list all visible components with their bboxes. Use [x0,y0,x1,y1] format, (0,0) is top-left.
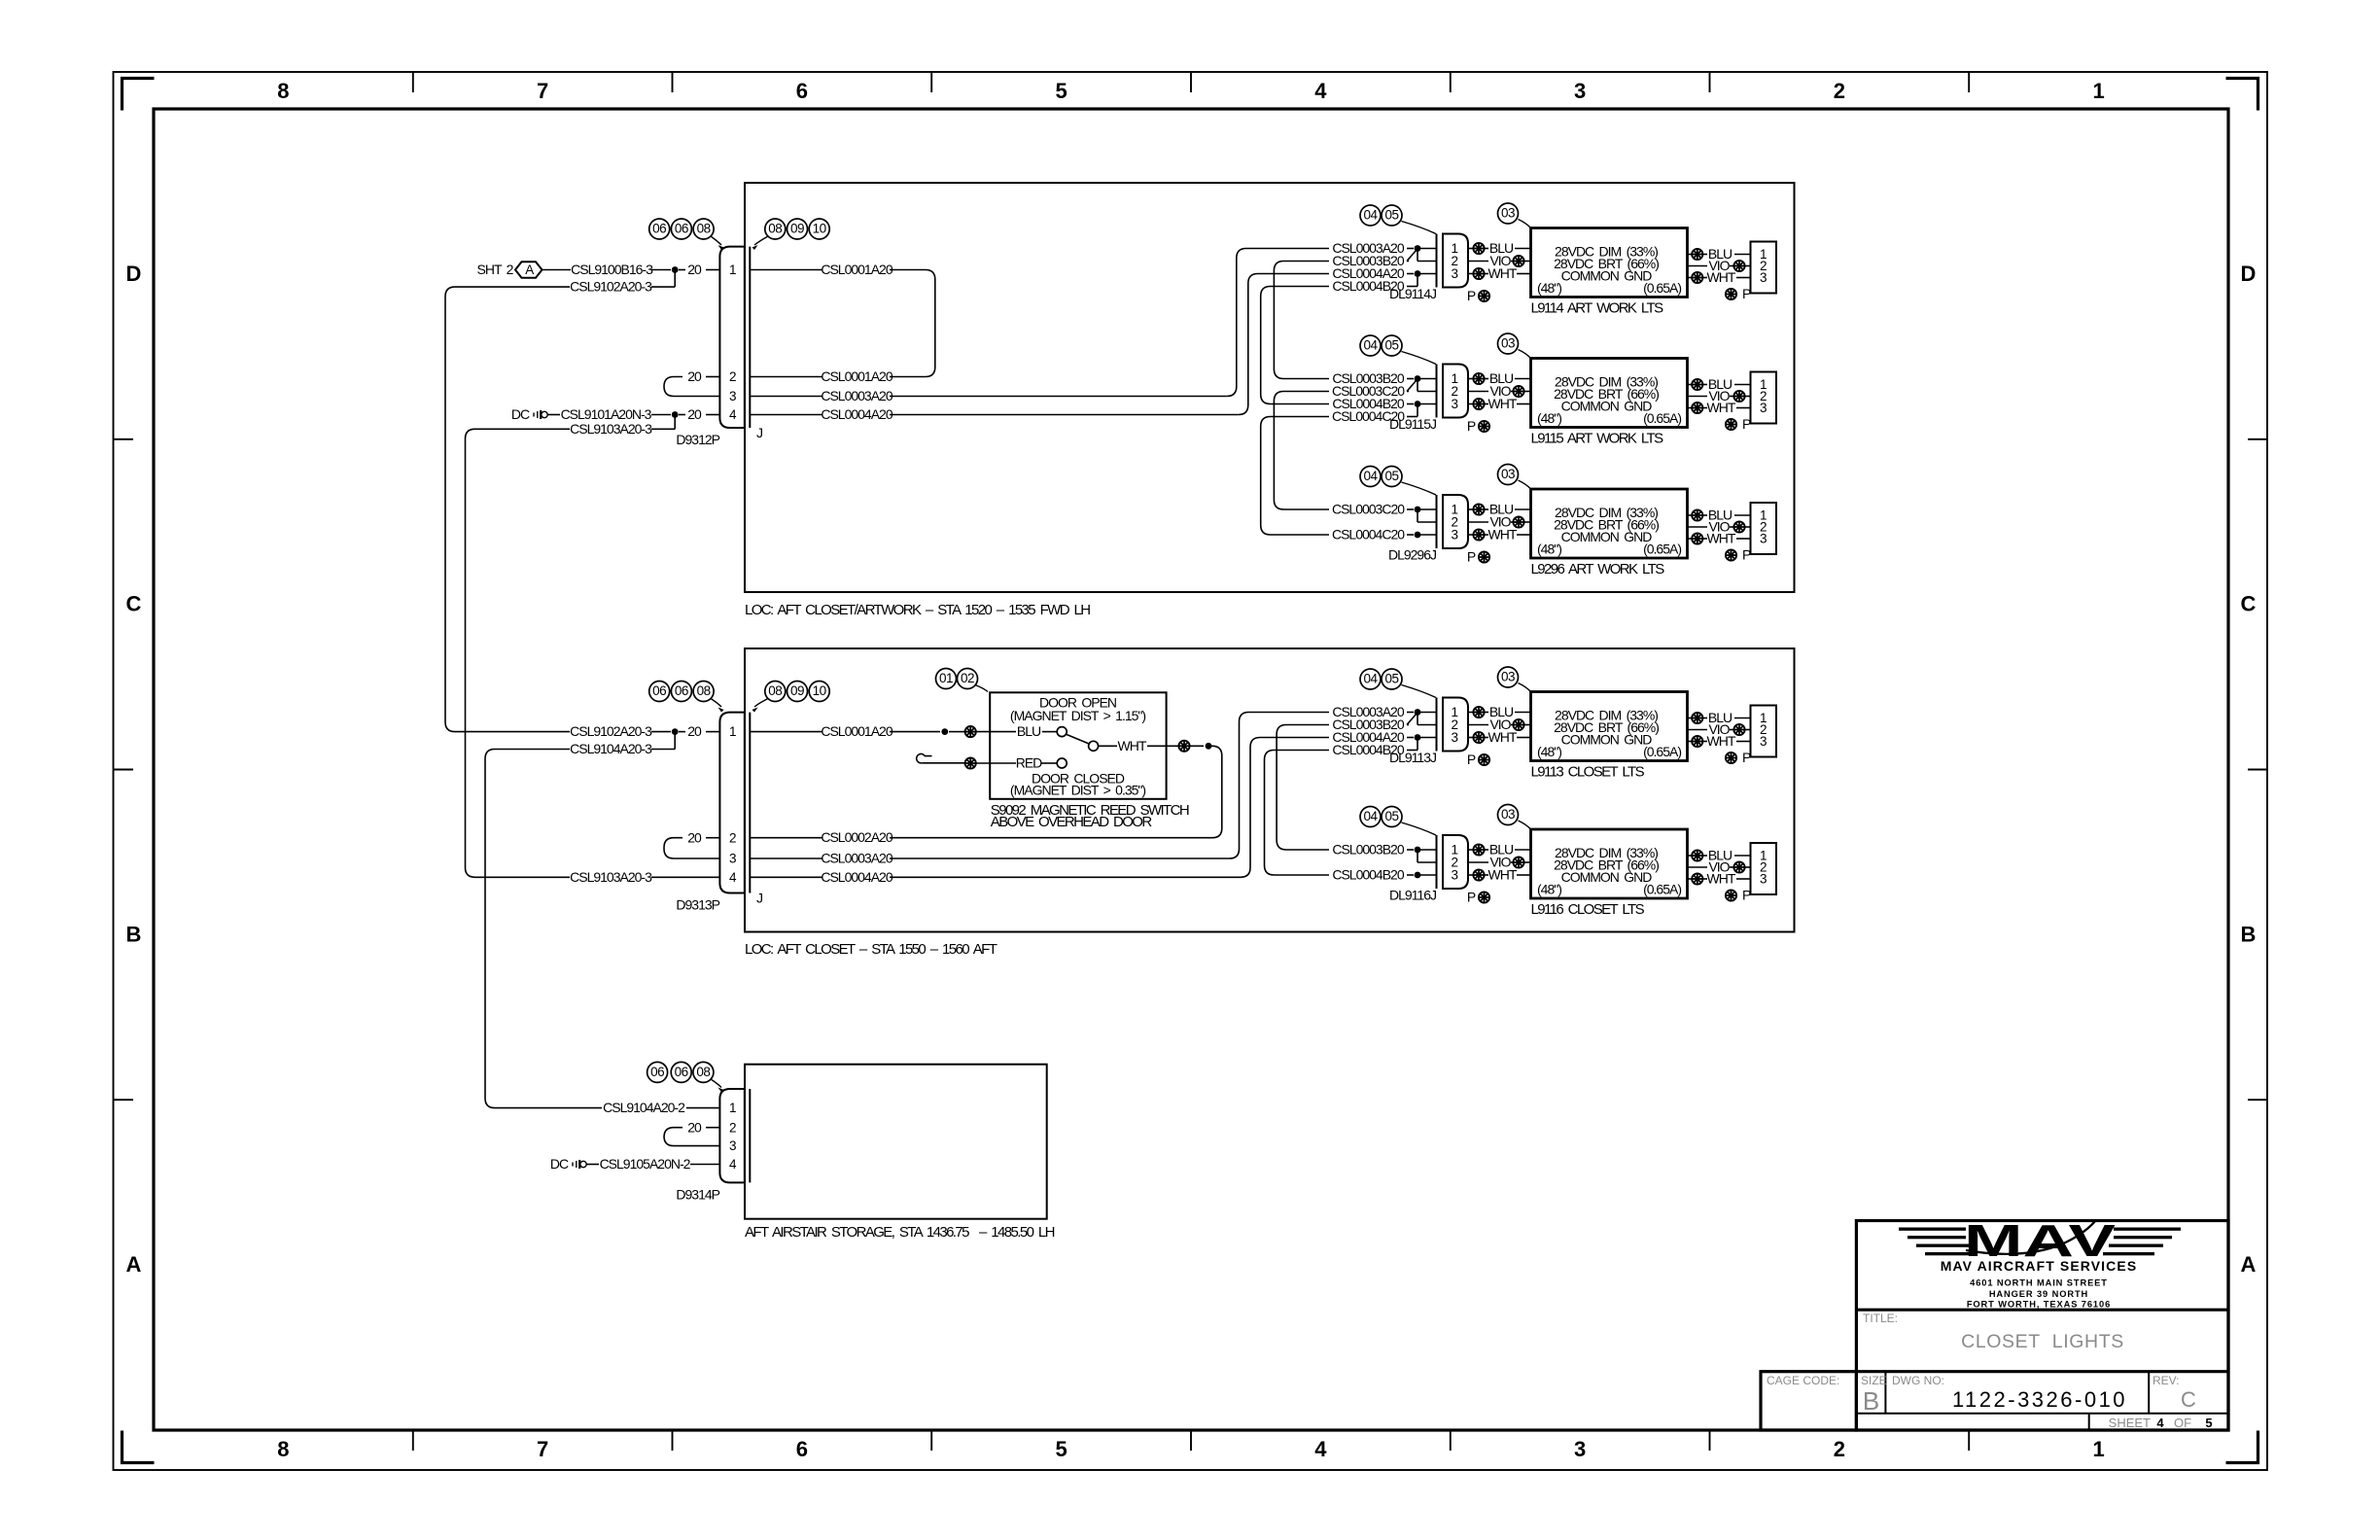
svg-text:3: 3 [1574,79,1586,103]
svg-text:CSL9100B16-3: CSL9100B16-3 [571,262,653,277]
svg-text:04: 04 [1363,338,1378,353]
svg-text:CSL9105A20N-2: CSL9105A20N-2 [600,1156,691,1172]
svg-text:CSL9101A20N-3: CSL9101A20N-3 [561,406,652,422]
svg-text:2: 2 [729,369,736,384]
svg-text:04: 04 [1363,809,1378,823]
wire 20 jumper D9314P pins 2-3 [664,1119,719,1145]
callout circles 04 05 (DL9115J) [1360,335,1436,365]
label REV C [2152,1374,2196,1412]
splice P (right) [1726,888,1751,903]
svg-text:DL9113J: DL9113J [1389,750,1436,765]
svg-text:04: 04 [1363,469,1378,483]
svg-text:03: 03 [1501,206,1515,221]
svg-text:(0.65A): (0.65A) [1643,882,1681,897]
svg-text:09: 09 [790,222,804,236]
svg-text:5: 5 [1055,1437,1067,1461]
svg-text:10: 10 [813,222,826,236]
wire CSL9105A20N-2 to D9314P pin 4 [600,1156,720,1172]
callout circles 01 02 (S9092) [936,669,989,692]
wire CSL0004B20 riser DL9114J to DL9115J [1261,287,1329,404]
connector block 1 2 3 (right) [1751,242,1777,294]
svg-text:09: 09 [790,683,804,698]
svg-text:C: C [2241,592,2257,616]
svg-text:6: 6 [796,79,808,103]
svg-text:8: 8 [277,79,289,103]
wire CSL0002A20 switch to D9313P pin2 [750,746,1222,845]
light unit L9116 CLOSET LTS [1531,829,1688,898]
splice P (left) [1467,549,1489,565]
svg-text:3: 3 [1451,868,1457,883]
svg-text:DL9116J: DL9116J [1389,888,1436,903]
splice and wire VIO (left) [1468,253,1531,268]
svg-text:02: 02 [961,671,974,685]
svg-text:CSL0004B20: CSL0004B20 [1332,867,1405,883]
svg-text:(48"): (48") [1537,542,1561,557]
svg-text:08: 08 [696,1065,710,1079]
svg-text:DL9296J: DL9296J [1388,547,1436,563]
ground DC symbol (D9312P pin 4) [511,406,560,422]
svg-text:CAGE CODE:: CAGE CODE: [1767,1374,1839,1387]
wire CSL0004B20 riser DL9113J to DL9116J [1265,751,1330,876]
svg-text:1122-3326-010: 1122-3326-010 [1952,1387,2127,1412]
wire CSL9102A20-3 (D9312P pin1 junction down to D9313P) [445,270,719,740]
splice and wire VIO (right) [1688,519,1751,535]
splice and wire BLU (right) [1688,376,1751,392]
label SIZE B [1861,1374,1887,1416]
connector DL9296J [1388,495,1468,563]
wire CSL0004C20 to DL9296J pin 3 [1332,527,1437,542]
connector DL9114J [1389,234,1468,302]
svg-text:P: P [1742,888,1751,903]
svg-text:COMMON GND: COMMON GND [1561,529,1653,544]
svg-text:4: 4 [2156,1416,2164,1430]
svg-text:06: 06 [675,683,688,698]
splice and wire WHT (left) [1468,867,1531,883]
wire CSL0004B20 to DL9116J pin 3 [1332,867,1436,883]
svg-text:SHEET: SHEET [2109,1416,2151,1430]
svg-text:P: P [1467,752,1476,767]
wire CSL0003B20 to DL9115J pin 1 [1332,370,1436,386]
svg-text:DWG NO:: DWG NO: [1892,1374,1944,1387]
connector DL9116J [1389,835,1468,903]
node AFT AIRSTAIR STORAGE box [745,1065,1055,1241]
svg-text:CSL0001A20: CSL0001A20 [821,723,893,739]
splice and wire WHT (left) [1468,396,1531,411]
svg-text:CSL0004A20: CSL0004A20 [821,869,893,885]
connector D9313P [676,713,762,913]
connector DL9115J [1389,365,1468,433]
svg-text:WHT: WHT [1488,867,1518,883]
splice and wire WHT (left) [1468,265,1531,281]
svg-text:WHT: WHT [1707,269,1736,285]
svg-text:CSL9104A20-2: CSL9104A20-2 [603,1100,685,1115]
wire CSL0003B20 riser DL9114J to DL9115J [1274,262,1329,379]
svg-text:CLOSET LIGHTS: CLOSET LIGHTS [1961,1331,2124,1352]
svg-text:DC: DC [550,1156,569,1172]
svg-text:3: 3 [729,389,736,403]
splice and wire VIO (left) [1468,855,1531,870]
svg-text:(0.65A): (0.65A) [1643,542,1681,557]
wire CSL0003C20 to DL9296J pin 1 [1332,502,1437,523]
wire 20 jumper D9312P pins 2-3 [664,368,719,396]
svg-text:(MAGNET DIST > 1.15"): (MAGNET DIST > 1.15") [1010,708,1145,723]
svg-text:(MAGNET DIST > 0.35"): (MAGNET DIST > 0.35") [1010,783,1145,798]
svg-text:WHT: WHT [1707,531,1736,546]
wire CSL0001A20 D9313P pin1 to switch S9092 [750,723,964,739]
label L9115 ART WORK LTS [1531,431,1664,447]
wire CSL0003B20 to DL9116J pin 1 [1332,842,1436,863]
svg-text:05: 05 [1384,469,1398,483]
svg-text:P: P [1467,890,1476,905]
splice and wire VIO (left) [1468,383,1531,399]
light unit L9115 ART WORK LTS [1531,359,1688,428]
svg-text:CSL9103A20-3: CSL9103A20-3 [570,869,652,885]
splice and wire WHT (right) [1688,400,1751,415]
svg-text:CSL0003A20: CSL0003A20 [821,851,893,866]
svg-text:DL9115J: DL9115J [1389,416,1436,432]
svg-text:L9113 CLOSET LTS: L9113 CLOSET LTS [1531,764,1645,781]
label TITLE: CLOSET LIGHTS [1863,1312,2124,1352]
splice and wire WHT (left) [1468,527,1531,542]
svg-text:05: 05 [1384,338,1398,353]
callout circle 03 (L9116 CLOSET LTS) [1498,805,1531,830]
svg-text:1: 1 [2092,79,2104,103]
svg-text:WHT: WHT [1488,527,1518,542]
svg-text:TITLE:: TITLE: [1863,1312,1898,1325]
svg-text:B: B [2241,922,2257,946]
callout circle 03 (L9115 ART WORK LTS) [1498,333,1531,359]
splice and wire WHT (right) [1688,871,1751,887]
svg-text:AFT AIRSTAIR STORAGE, STA 1436: AFT AIRSTAIR STORAGE, STA 1436.75 – 1485… [745,1224,1055,1241]
splice P (left) [1467,752,1489,767]
wire CSL0004A20 to DL9114J pin 3 [1332,265,1436,281]
svg-text:03: 03 [1501,467,1515,481]
svg-text:CSL9104A20-3: CSL9104A20-3 [570,741,652,756]
svg-text:HANGER 39 NORTH: HANGER 39 NORTH [1989,1289,2088,1299]
svg-text:L9114 ART WORK LTS: L9114 ART WORK LTS [1531,300,1664,317]
wire CSL0004B20 to DL9115J pin 3 [1332,396,1436,411]
svg-text:BLU: BLU [1017,723,1041,739]
wire CSL0003B20 to DL9114J pin 2 [1332,249,1436,269]
svg-text:4: 4 [1314,1437,1327,1461]
splice and wire BLU (right) [1688,710,1751,725]
light unit L9296 ART WORK LTS [1531,489,1688,558]
ground DC symbol (D9314P pin 4) [550,1156,599,1172]
svg-text:D9312P: D9312P [676,432,719,447]
switch S9092 box [990,692,1189,830]
svg-text:DL9114J: DL9114J [1389,286,1436,301]
svg-text:CSL9103A20-3: CSL9103A20-3 [570,421,652,437]
svg-text:3: 3 [1574,1437,1586,1461]
svg-text:06: 06 [675,1065,688,1079]
label L9296 ART WORK LTS [1531,561,1665,577]
svg-text:08: 08 [697,683,711,698]
svg-text:D: D [126,262,142,286]
svg-text:REV:: REV: [2152,1374,2180,1387]
svg-text:(0.65A): (0.65A) [1643,744,1681,759]
svg-text:B: B [126,922,142,946]
svg-text:MAV AIRCRAFT SERVICES: MAV AIRCRAFT SERVICES [1941,1258,2138,1274]
svg-text:L9116 CLOSET LTS: L9116 CLOSET LTS [1531,901,1645,918]
callout circles 04 05 (DL9296J) [1360,467,1436,496]
svg-text:3: 3 [1760,734,1767,749]
svg-text:CSL0004C20: CSL0004C20 [1332,527,1405,542]
svg-text:CSL9102A20-3: CSL9102A20-3 [570,279,652,295]
splice P (right) [1726,416,1751,432]
svg-text:A: A [2241,1252,2257,1277]
light unit L9113 CLOSET LTS [1531,692,1688,761]
svg-text:DC: DC [511,406,530,422]
label CAGE CODE [1767,1374,1839,1387]
svg-text:J: J [756,425,762,440]
splice and wire BLU (right) [1688,246,1751,262]
svg-text:2: 2 [729,830,736,845]
callout circles 04 05 (DL9113J) [1360,669,1436,698]
svg-text:2: 2 [729,1120,736,1135]
wire CSL0003C20 to DL9115J pin 2 [1332,379,1437,400]
svg-text:CSL0003A20: CSL0003A20 [821,388,893,403]
svg-text:05: 05 [1384,208,1398,223]
svg-text:05: 05 [1384,809,1398,823]
connector block 1 2 3 (right) [1751,843,1777,894]
svg-text:08: 08 [697,222,711,236]
svg-text:(0.65A): (0.65A) [1643,410,1681,426]
svg-text:06: 06 [652,683,666,698]
svg-text:08: 08 [768,222,782,236]
svg-text:3: 3 [1760,872,1767,887]
label L9114 ART WORK LTS [1531,300,1664,317]
svg-text:6: 6 [796,1437,808,1461]
splice and wire WHT (left) [1468,729,1531,745]
svg-text:COMMON GND: COMMON GND [1561,732,1653,748]
connector D9312P [676,247,762,447]
svg-text:SHT 2: SHT 2 [477,262,514,277]
splice (CSL0001A20 to switch) [965,726,1016,737]
wire CSL0004C20 to DL9115J pin 3 junction [1332,404,1417,425]
wire CSL0003B20 riser DL9113J to DL9116J [1277,725,1329,851]
svg-text:08: 08 [768,683,782,698]
splice and wire VIO (right) [1688,258,1751,273]
svg-text:WHT: WHT [1488,729,1518,745]
svg-text:CSL0003B20: CSL0003B20 [1332,842,1405,857]
svg-text:CSL0003C20: CSL0003C20 [1332,502,1405,517]
svg-text:20: 20 [687,723,702,739]
svg-text:10: 10 [813,683,826,698]
node LOC box AFT CLOSET [745,648,1795,958]
svg-text:LOC: AFT CLOSET/ARTWORK – STA: LOC: AFT CLOSET/ARTWORK – STA 1520 – 153… [745,602,1090,618]
wire CSL0004A20 D9312P pin4 to DL9114J [750,274,1329,423]
svg-text:J: J [756,891,762,906]
splice and wire BLU (left) [1468,370,1531,386]
wire 20 jumper D9313P pins 2-3 [664,829,719,858]
svg-text:WHT: WHT [1707,733,1736,749]
wire WHT from switch [1099,738,1211,753]
svg-text:4601 NORTH MAIN STREET: 4601 NORTH MAIN STREET [1970,1278,2108,1288]
splice and wire VIO (right) [1688,721,1751,737]
svg-text:2: 2 [1834,1437,1845,1461]
wire CSL0004B20 to DL9114J pin 3 junction [1332,274,1417,295]
node SHT 2 flag A [477,262,571,278]
svg-text:20: 20 [687,262,702,277]
svg-text:D: D [2241,262,2257,286]
svg-text:7: 7 [537,1437,548,1461]
svg-text:WHT: WHT [1707,871,1736,887]
svg-text:03: 03 [1501,807,1515,822]
svg-text:3: 3 [1451,397,1457,411]
svg-text:7: 7 [537,79,548,103]
logo MAV Aircraft Services [1899,1215,2181,1309]
svg-text:P: P [1467,549,1476,565]
label DWG NO 1122-3326-010 [1892,1374,2127,1412]
svg-text:(48"): (48") [1537,280,1561,296]
splice P (left) [1467,418,1489,434]
svg-text:D9313P: D9313P [676,897,719,913]
callout circles 06 06 08 (D9313P) [649,682,724,713]
svg-text:3: 3 [729,1138,736,1153]
wire CSL0004A20 to DL9113J pin 3 [1332,729,1436,745]
svg-text:COMMON GND: COMMON GND [1561,869,1653,885]
connector block 1 2 3 (right) [1751,372,1777,424]
splice and wire WHT (right) [1688,733,1751,749]
splice and wire BLU (left) [1468,704,1531,719]
svg-text:2: 2 [1834,79,1845,103]
node title block [1761,1221,2228,1431]
svg-text:20: 20 [687,1119,702,1135]
svg-text:LOC: AFT CLOSET – STA 1550 – 1: LOC: AFT CLOSET – STA 1550 – 1560 AFT [745,941,997,958]
svg-text:ABOVE OVERHEAD DOOR: ABOVE OVERHEAD DOOR [991,814,1153,830]
callout circles 08 09 10 (D9312P J) [752,219,830,250]
callout circle 03 (L9114 ART WORK LTS) [1498,203,1531,228]
svg-text:P: P [1467,288,1476,303]
svg-text:04: 04 [1363,672,1378,686]
wire CSL0003C20 riser DL9115J to DL9296J [1274,392,1329,510]
callout circles 04 05 (DL9116J) [1360,807,1436,836]
wire CSL9100B16-3 to D9312P pin 1 [571,262,719,277]
splice and wire VIO (left) [1468,717,1531,732]
splice and wire VIO (left) [1468,514,1531,530]
wire CSL0004C20 riser DL9115J to DL9296J [1261,417,1329,536]
svg-text:3: 3 [1451,730,1457,745]
svg-text:5: 5 [2205,1416,2212,1430]
svg-text:COMMON GND: COMMON GND [1561,268,1653,284]
svg-text:06: 06 [650,1065,664,1079]
svg-text:CSL0001A20: CSL0001A20 [821,368,893,384]
svg-text:06: 06 [652,222,666,236]
svg-text:4: 4 [729,1157,737,1172]
splice and wire BLU (left) [1468,240,1531,256]
wire CSL0003A20 to DL9113J pin 1 [1332,704,1436,719]
connector DL9113J [1389,698,1468,766]
svg-text:05: 05 [1384,672,1398,686]
svg-text:20: 20 [687,368,702,384]
label L9116 CLOSET LTS [1531,901,1645,918]
svg-text:D9314P: D9314P [676,1186,719,1202]
svg-text:(48"): (48") [1537,410,1561,426]
svg-text:B: B [1863,1386,1879,1416]
svg-text:20: 20 [687,406,702,422]
svg-text:1: 1 [729,262,736,277]
splice and wire WHT (right) [1688,531,1751,546]
svg-text:3: 3 [729,852,736,866]
svg-text:4: 4 [729,407,737,422]
splice and wire WHT (right) [1688,269,1751,285]
svg-text:CSL0002A20: CSL0002A20 [821,829,893,845]
svg-text:3: 3 [1760,401,1767,415]
svg-text:4: 4 [729,870,737,885]
svg-text:3: 3 [1451,528,1457,542]
wire CSL9104A20-3 (D9313P pin1 junction down to D9314P pin1) [485,732,719,1116]
wire CSL0001A20 D9312P pin1 to pin2 loop [750,262,935,384]
splice P (left) [1467,288,1489,303]
callout circles 06 06 08 (D9314P) [647,1062,724,1092]
svg-text:3: 3 [1451,266,1457,281]
splice and wire BLU (left) [1468,502,1531,517]
svg-text:WHT: WHT [1118,738,1147,753]
svg-text:P: P [1467,418,1476,434]
svg-text:WHT: WHT [1707,400,1736,415]
svg-text:P: P [1742,286,1751,301]
svg-text:3: 3 [1760,270,1767,285]
splice and wire VIO (right) [1688,388,1751,403]
svg-text:A: A [525,262,534,277]
splice and wire BLU (right) [1688,507,1751,523]
callout circles 06 06 08 (D9312P) [649,219,724,250]
splice and wire BLU (right) [1688,848,1751,863]
wire CSL0003A20 to DL9114J pin 1 [1332,240,1436,256]
switch blade BLU contact [1017,723,1099,751]
node LOC box AFT CLOSET/ARTWORK [745,183,1795,618]
svg-text:L9296 ART WORK LTS: L9296 ART WORK LTS [1531,561,1665,577]
svg-text:03: 03 [1501,336,1515,351]
splice P (right) [1726,547,1751,563]
svg-text:C: C [126,592,142,616]
splice P (right) [1726,750,1751,765]
svg-text:C: C [2181,1387,2196,1412]
wire CSL0003A20 D9313P pin3 to DL9113J [750,713,1329,866]
svg-text:04: 04 [1363,208,1378,223]
wire CSL0004B20 to DL9113J pin 3 junction [1332,738,1417,758]
svg-text:03: 03 [1501,670,1515,684]
svg-text:(48"): (48") [1537,882,1561,897]
svg-text:CSL0001A20: CSL0001A20 [821,262,893,277]
callout circles 08 09 10 (D9313P J) [752,682,830,713]
splice and wire VIO (right) [1688,859,1751,875]
svg-text:1: 1 [729,1101,736,1115]
svg-text:(48"): (48") [1537,744,1561,759]
svg-text:20: 20 [687,829,702,845]
svg-text:SIZE: SIZE [1861,1374,1887,1387]
light unit L9114 ART WORK LTS [1531,228,1688,297]
svg-text:4: 4 [1314,79,1327,103]
wire CSL0004A20 D9313P pin4 to DL9113J [750,738,1329,885]
svg-text:L9115 ART WORK LTS: L9115 ART WORK LTS [1531,431,1664,447]
svg-text:OF: OF [2174,1416,2191,1430]
svg-text:P: P [1742,547,1751,563]
svg-text:P: P [1742,416,1751,432]
switch RED contact [917,753,1067,770]
svg-text:FORT WORTH, TEXAS 76106: FORT WORTH, TEXAS 76106 [1967,1299,2111,1309]
connector block 1 2 3 (right) [1751,503,1777,554]
svg-text:A: A [126,1252,142,1277]
svg-text:8: 8 [277,1437,289,1461]
svg-text:CSL9102A20-3: CSL9102A20-3 [570,723,652,739]
svg-text:3: 3 [1760,532,1767,546]
connector block 1 2 3 (right) [1751,706,1777,757]
svg-text:COMMON GND: COMMON GND [1561,399,1653,414]
svg-text:WHT: WHT [1488,265,1518,281]
svg-text:(0.65A): (0.65A) [1643,280,1681,296]
wire CSL0003B20 to DL9113J pin 2 [1332,713,1436,733]
